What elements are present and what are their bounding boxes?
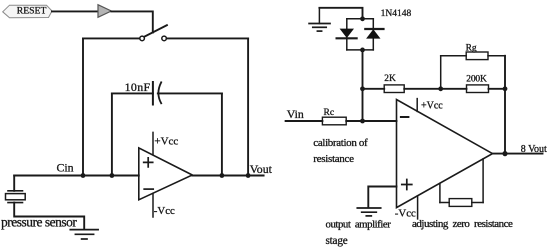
diode pair right branch wire (372, 19, 374, 50)
switch S1 right contact (162, 36, 167, 41)
wire ground G1 riser (318, 8, 320, 24)
svg-text:2K: 2K (384, 74, 396, 84)
resistor R0 (zero adjust) body (449, 199, 472, 207)
capacitor C1 curved plate (158, 82, 161, 103)
wire left vertical of cap loop (111, 93, 113, 175)
wire diode node down to Vin row (362, 50, 364, 121)
ground G1 (diode clamp) (309, 24, 330, 32)
op-amp U1 -Vcc pin tick (152, 193, 154, 217)
svg-text:Vout: Vout (250, 162, 273, 176)
svg-text:8 Vout: 8 Vout (521, 144, 547, 155)
junction dot Rg branch (438, 86, 443, 91)
junction dot input row at x=83 (81, 173, 86, 178)
junction dot 200K right (503, 86, 508, 91)
pressure sensor X1 bottom plate (8, 202, 23, 204)
resistor 200K body (467, 85, 489, 93)
wire output row Vout (192, 175, 263, 177)
zero adjust resistor right riser (482, 159, 484, 203)
wire right vertical to output (504, 56, 506, 154)
junction dot diode top (360, 16, 365, 21)
diode D2 (cathode up) bar (365, 28, 383, 30)
diode pair loop bottom rail (347, 49, 374, 51)
diode D1 (cathode down) body (340, 29, 354, 38)
junction dot at 2K row (360, 86, 365, 91)
pressure sensor X1 top lead (13, 176, 15, 191)
wire 200K right lead (489, 88, 506, 90)
pressure sensor X1 top plate (8, 190, 23, 192)
switch S1 left contact (140, 36, 145, 41)
wire 2K left lead (363, 88, 385, 90)
net label RESET flag (3, 5, 52, 18)
pressure sensor X1 body box (6, 194, 26, 200)
wire top rail to diode node (319, 8, 362, 19)
op-amp U3 -Vcc pin tick (417, 196, 419, 219)
wire cap row right (158, 92, 222, 94)
resistor Rg body (466, 52, 488, 60)
wire switch row left (83, 37, 140, 39)
wire left vertical of switch loop (82, 38, 84, 175)
wire 2K to 200K (404, 88, 466, 90)
svg-text:adjusting zero resistance: adjusting zero resistance (412, 218, 513, 230)
wire output 8 Vout (493, 153, 543, 155)
wire plus input to ground G2 (368, 187, 396, 208)
op-amp U3 +Vcc pin tick (416, 99, 418, 112)
wire Vin lead (286, 120, 323, 122)
op-amp U1 plus input symbol (144, 158, 153, 167)
junction dot diode bottom (360, 48, 365, 53)
op-amp U3 plus input symbol (402, 180, 412, 190)
svg-text:200K: 200K (466, 75, 487, 85)
op-amp U1 +Vcc pin tick (152, 132, 154, 154)
svg-text:Rc: Rc (324, 108, 335, 118)
svg-text:Vin: Vin (287, 107, 304, 121)
wire sensor to ground (14, 203, 84, 229)
diode pair loop top rail (347, 18, 374, 20)
wire Rg top rail right (488, 55, 505, 57)
switch S1 lever (144, 25, 167, 37)
junction dot output node (502, 151, 507, 156)
op-amp U3 minus input symbol (401, 116, 409, 118)
wire cap row left (112, 92, 153, 94)
wire Rc to op-amp minus input (346, 120, 396, 122)
zero adjust resistor left lead (440, 202, 449, 204)
resistor 2K body (384, 85, 404, 93)
wire buffer to switch lever (111, 11, 153, 32)
resistor Rc body (322, 117, 346, 125)
diode D2 body (366, 29, 380, 38)
capacitor C1 straight plate (152, 82, 154, 105)
junction dot output row at x=222 (220, 173, 225, 178)
wire RESET to buffer (52, 10, 98, 12)
svg-text:-Vcc: -Vcc (154, 205, 175, 217)
wire input row Cin (14, 175, 139, 177)
diode D1 cathode bar (337, 37, 357, 39)
svg-text:resistance: resistance (313, 153, 354, 165)
op-amp U1 minus input symbol (144, 188, 153, 190)
ground G2 (357, 208, 380, 216)
op-amp U3 triangle (397, 100, 493, 208)
wire right vertical of switch loop (247, 38, 249, 175)
op-amp U1 triangle (139, 148, 193, 200)
svg-text:output amplifier: output amplifier (326, 218, 392, 230)
svg-text:10nF: 10nF (125, 80, 151, 94)
buffer U2 (gray triangle) (98, 5, 111, 18)
wire Rg loop left riser (440, 56, 442, 89)
svg-text:+Vcc: +Vcc (421, 100, 443, 111)
wire right vertical of cap loop (221, 93, 223, 175)
junction dot input row at x=112 (110, 173, 115, 178)
svg-text:stage: stage (326, 235, 348, 247)
wire switch row right (167, 37, 249, 39)
wire Rg top rail left (441, 55, 467, 57)
ground G3 (sensor) (70, 230, 98, 239)
zero adjust resistor left riser (439, 183, 441, 202)
diode pair left branch wire (346, 19, 348, 50)
svg-text:calibration of: calibration of (313, 137, 368, 149)
junction dot output row at x=248 (246, 173, 251, 178)
svg-text:RESET: RESET (17, 6, 47, 17)
junction dot at Vin row (360, 119, 365, 124)
svg-text:Cin: Cin (57, 161, 74, 175)
svg-text:1N4148: 1N4148 (381, 9, 412, 19)
zero adjust resistor right lead (472, 202, 483, 204)
svg-text:+Vcc: +Vcc (154, 135, 178, 147)
